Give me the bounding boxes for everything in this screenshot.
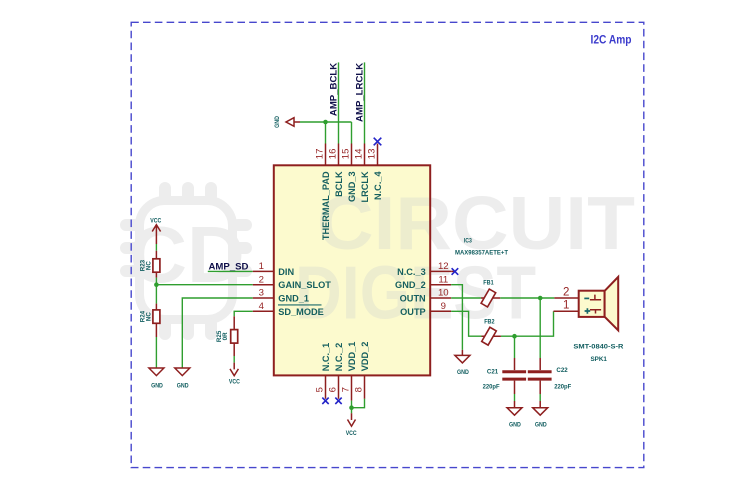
pin 11 GND_2: [395, 274, 451, 290]
ground (under R24): [149, 368, 164, 390]
wire pin3 to ground: [182, 298, 253, 368]
svg-text:N.C._1: N.C._1: [321, 343, 331, 372]
svg-text:7: 7: [340, 387, 351, 392]
svg-text:4: 4: [259, 301, 265, 312]
watermark DIGEST: [295, 251, 536, 335]
junction VDD: [349, 405, 354, 410]
junction: [323, 120, 328, 125]
power VCC (left top): [150, 217, 161, 244]
svg-text:LRCLK: LRCLK: [360, 171, 370, 202]
svg-text:N.C._2: N.C._2: [334, 343, 344, 372]
junction node OUTP/C21: [512, 334, 517, 339]
wire gnd to pin17: [300, 121, 326, 123]
wire pin 7 to junction: [351, 401, 353, 408]
svg-text:GND: GND: [535, 421, 547, 428]
wire: [155, 337, 157, 368]
svg-text:11: 11: [438, 274, 448, 285]
svg-text:0R: 0R: [222, 332, 229, 340]
wire pin4 to R25: [234, 311, 253, 316]
svg-text:MAX98357AETE+T: MAX98357AETE+T: [455, 249, 509, 256]
svg-text:17: 17: [315, 149, 326, 160]
pin 10 OUTN: [400, 288, 452, 304]
svg-text:OUTN: OUTN: [400, 294, 426, 304]
pin 16 BCLK: [328, 144, 344, 197]
resistor R25: [216, 316, 238, 356]
svg-text:GND: GND: [177, 383, 189, 390]
power VCC (below R25, arrow down): [229, 363, 240, 386]
svg-text:FB2: FB2: [484, 319, 495, 326]
watermark CD monogram: [129, 210, 245, 299]
svg-text:16: 16: [328, 149, 339, 160]
svg-text:VDD_2: VDD_2: [360, 342, 370, 372]
svg-text:I2C Amp: I2C Amp: [591, 33, 632, 47]
svg-text:220pF: 220pF: [554, 383, 571, 390]
ground (top, pointing left): [274, 116, 300, 128]
svg-text:CD: CD: [129, 210, 245, 299]
svg-text:GND: GND: [509, 421, 521, 428]
svg-text:5: 5: [314, 387, 325, 392]
wire down to pin 17: [325, 122, 327, 144]
svg-text:SD_MODE: SD_MODE: [278, 307, 323, 317]
ground (pin GND_2): [455, 350, 470, 376]
wire to pin 2: [156, 284, 252, 286]
ferrite bead FB1: [481, 280, 500, 307]
speaker SPK1: [554, 277, 624, 363]
svg-text:GND: GND: [274, 116, 281, 128]
wire FB2 to speaker pin 1: [501, 311, 554, 336]
wire junction down to C22: [539, 298, 541, 358]
wire over to pin 15: [326, 121, 352, 123]
svg-text:3: 3: [259, 288, 264, 299]
label AMP_BCLK: [328, 63, 339, 116]
ferrite bead FB2: [482, 319, 501, 345]
pin 4 SD_MODE (active low overline): [253, 301, 324, 317]
svg-text:C21: C21: [487, 369, 498, 376]
pin 1 DIN: [253, 261, 295, 277]
svg-text:13: 13: [367, 149, 378, 160]
power VCC (below pins 7/8, arrow down): [346, 413, 357, 437]
svg-text:10: 10: [438, 288, 449, 299]
svg-text:1: 1: [259, 261, 264, 272]
wire: [155, 278, 157, 285]
capacitor C22: [528, 358, 571, 394]
op-amp IC3 body fill: [274, 165, 430, 375]
wire junction down to C21: [514, 336, 516, 358]
pin 15 GND_3: [341, 144, 357, 203]
svg-text:DIGEST: DIGEST: [295, 251, 536, 335]
wire AMP_BCLK to pin 16: [338, 62, 340, 143]
svg-text:OUTP: OUTP: [400, 307, 426, 317]
wire FB1 to speaker: [500, 297, 554, 299]
label AMP_SD: [209, 261, 249, 272]
svg-text:2: 2: [259, 274, 264, 285]
svg-text:AMP_BCLK: AMP_BCLK: [328, 63, 339, 116]
svg-text:FB1: FB1: [483, 280, 494, 287]
svg-text:VDD_1: VDD_1: [347, 342, 357, 372]
wire: [155, 285, 157, 304]
ground (pin GND_1): [175, 368, 190, 390]
svg-text:N.C._4: N.C._4: [373, 171, 383, 200]
resistor R24: [140, 304, 160, 337]
watermark logo chip: [126, 188, 246, 334]
pin 7 VDD_1: [340, 342, 357, 401]
wire: [208, 270, 253, 272]
svg-text:GND_2: GND_2: [395, 280, 426, 290]
pin 2 GAIN_SLOT: [253, 274, 331, 290]
pin 14 LRCLK: [354, 144, 370, 203]
ground (under C21): [507, 401, 522, 428]
pin 9 OUTP: [400, 301, 451, 317]
ground (under C22): [533, 401, 548, 428]
svg-text:SPK1: SPK1: [590, 356, 607, 363]
wire pin 8 over to junction: [352, 399, 365, 408]
sheet border: [131, 22, 644, 467]
label AMP_LRCLK: [354, 63, 365, 122]
svg-text:8: 8: [353, 387, 364, 392]
resistor R23: [140, 251, 160, 278]
pin 13 N.C._4: [367, 144, 383, 201]
svg-text:IC3: IC3: [464, 237, 472, 244]
IC3 value label MAX98357AETE+T: [455, 249, 509, 256]
no-connect X pin 6: [335, 398, 341, 404]
svg-text:C22: C22: [556, 367, 567, 374]
wire: [539, 394, 541, 401]
junction node OUTN/C22: [538, 296, 543, 301]
svg-text:AMP_LRCLK: AMP_LRCLK: [354, 63, 365, 122]
pin 3 GND_1: [253, 288, 309, 304]
svg-text:14: 14: [354, 148, 365, 159]
svg-text:VCC: VCC: [229, 378, 240, 385]
IC3 reference label: [464, 237, 472, 244]
pin 8 VDD_2: [353, 342, 370, 399]
svg-text:BCLK: BCLK: [334, 171, 344, 197]
svg-text:NC: NC: [146, 312, 153, 321]
no-connect X pin 5: [322, 398, 328, 404]
svg-text:GND_1: GND_1: [278, 294, 309, 304]
svg-text:GND: GND: [457, 369, 469, 376]
svg-text:6: 6: [327, 387, 338, 392]
svg-text:220pF: 220pF: [483, 383, 500, 390]
svg-text:SMT-0840-S-R: SMT-0840-S-R: [573, 343, 623, 350]
wire: [514, 394, 516, 401]
svg-text:9: 9: [441, 301, 446, 312]
svg-text:15: 15: [341, 149, 352, 160]
sheet title I2C Amp: [591, 33, 632, 47]
wire pin 10 to FB1: [451, 297, 481, 299]
pin 17 THERMAL_PAD: [315, 144, 331, 241]
svg-text:1: 1: [563, 300, 569, 312]
wire: [155, 244, 157, 251]
pin 6 N.C._2: [327, 343, 344, 399]
svg-text:VCC: VCC: [346, 430, 357, 437]
watermark CIRCUIT: [317, 181, 635, 265]
svg-text:N.C._3: N.C._3: [397, 267, 426, 277]
no-connect X pin 12: [451, 268, 458, 275]
pin 12 N.C._3: [397, 261, 451, 277]
junction: [154, 282, 159, 287]
wire: [233, 356, 235, 363]
svg-text:GND_3: GND_3: [347, 171, 357, 202]
wire: [351, 408, 353, 414]
wire down to pin 15: [351, 122, 353, 144]
op-amp U1 / amplifier IC3 MAX98357AETE+T outline: [274, 165, 430, 375]
svg-text:VCC: VCC: [150, 217, 161, 224]
pin 5 N.C._1: [314, 343, 331, 399]
svg-text:DIN: DIN: [278, 267, 294, 277]
svg-text:GND: GND: [151, 383, 163, 390]
wire pin 11 to ground: [451, 285, 462, 350]
wire pin 9 to FB2: [451, 311, 481, 336]
svg-text:12: 12: [438, 261, 449, 272]
svg-text:THERMAL_PAD: THERMAL_PAD: [321, 171, 331, 240]
wire AMP_LRCLK to pin 14: [364, 62, 366, 143]
svg-text:GAIN_SLOT: GAIN_SLOT: [278, 280, 331, 290]
svg-text:2: 2: [563, 286, 569, 298]
svg-text:NC: NC: [146, 261, 153, 270]
capacitor C21: [483, 358, 526, 394]
no-connect X pin 13: [374, 138, 382, 146]
